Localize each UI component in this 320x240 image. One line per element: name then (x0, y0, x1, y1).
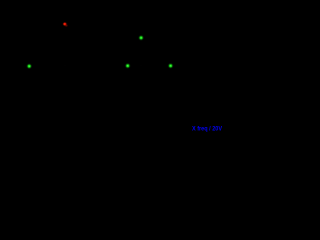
LED D1 (red, lit) (62, 22, 68, 28)
node A (green junction dot) (26, 63, 32, 69)
node C (green junction dot) (168, 63, 174, 69)
wire: branch from LED D1 down to bottom net (64, 24, 66, 66)
wire: net along y=66 from node A to node C (29, 65, 171, 67)
node B (green junction dot) (138, 35, 144, 41)
node D (green junction dot) (125, 63, 131, 69)
wire: branch from node B down to bottom net (140, 38, 142, 66)
svg-text:X freq / 20V: X freq / 20V (192, 125, 223, 132)
